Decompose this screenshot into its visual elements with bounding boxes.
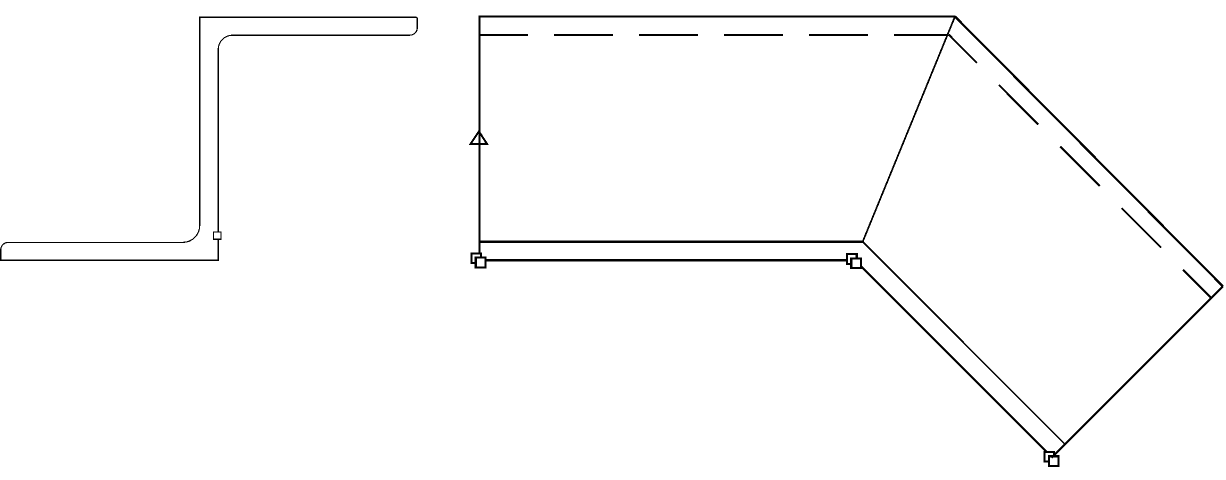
Z-profile sketch outline (sheet-metal cross section, left figure) bbox=[1, 17, 418, 260]
grip square pair at bend corner bbox=[847, 254, 861, 268]
left panel bottom near edge (upper line) bbox=[478, 241, 862, 243]
right panel outer top edge (45 deg) bbox=[955, 17, 1223, 287]
right panel inner bottom-left edge (upper 45 deg line) bbox=[863, 242, 1065, 445]
left panel left edge bbox=[478, 16, 480, 259]
right panel outer bottom-left edge (lower 45 deg line) bbox=[856, 261, 1051, 456]
grip square pair at left panel bottom-left corner bbox=[471, 253, 485, 267]
left panel top edge bbox=[478, 16, 955, 18]
endpoint square marker on Z-profile web bbox=[214, 232, 221, 239]
right panel right edge (45 deg) bbox=[1051, 286, 1223, 458]
grip square pair at right panel bottom corner bbox=[1045, 452, 1059, 466]
right panel hidden bend line (45 deg dashed) bbox=[949, 35, 1211, 298]
left panel hidden bend line (dashed) bbox=[479, 34, 949, 36]
fold line between panels bbox=[863, 17, 955, 242]
fixed-constraint triangle marker on left edge bbox=[471, 131, 487, 144]
left panel bottom far edge (lower line) bbox=[478, 259, 853, 261]
